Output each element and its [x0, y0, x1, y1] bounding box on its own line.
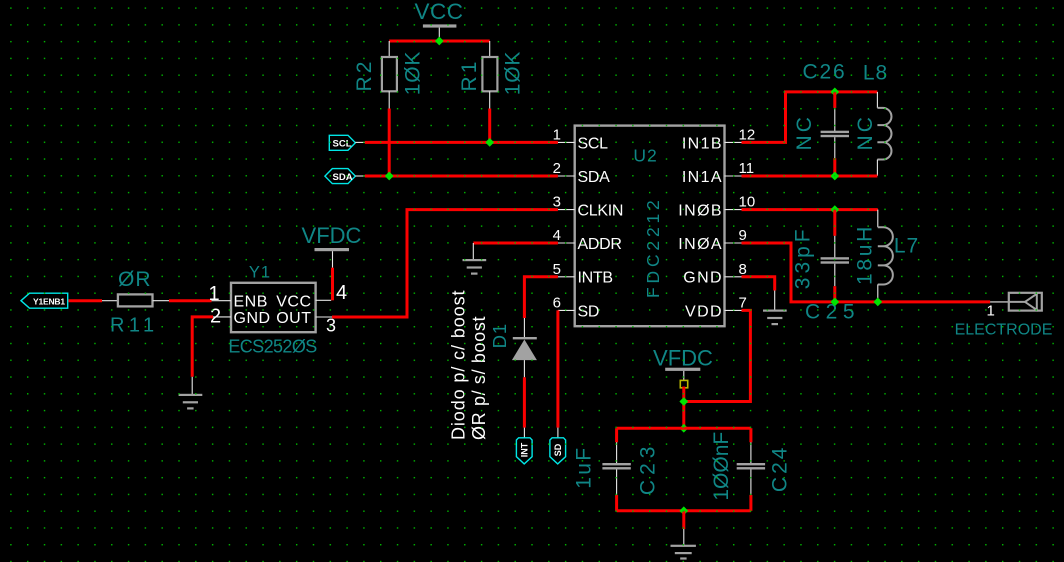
Y1 pin 1 ENB [209, 283, 232, 305]
U2 pin 1 SCL [553, 127, 608, 153]
connector ELECTRODE pin 1 [987, 293, 1042, 320]
junction L7 bottom [873, 298, 882, 307]
junction SCL / R1 [485, 138, 494, 147]
wire D1 to INT flag [523, 377, 526, 427]
wire Y1 OUT to U2 CLKIN [332, 210, 558, 317]
wire U2 IN1B to tank rail [742, 92, 878, 142]
ground bottom [671, 529, 696, 560]
U2 pin 9 IN0A [678, 227, 747, 253]
net flag INT [516, 428, 532, 464]
resistor R11 [102, 294, 169, 306]
wire cap top rail [617, 427, 751, 430]
wire U2 ADDR [473, 242, 558, 245]
wire U2 VDD to VFDC [684, 310, 751, 401]
wire VFDC to Y1 pin 4 [331, 268, 334, 301]
Y1 pin 4 VCC [316, 282, 348, 304]
diode D1 [512, 318, 537, 377]
U2 pin 7 VDD [685, 295, 747, 321]
wire U2 SD to SD flag [556, 310, 559, 427]
U2 pin 2 SDA [553, 160, 610, 186]
capacitor C25 [821, 210, 849, 302]
junction VCC rail [435, 37, 444, 46]
net flag SD [550, 428, 566, 464]
wire R2 to SDA [388, 109, 391, 177]
wire U2 IN1A to tank bottom rail [742, 175, 878, 178]
inductor L8 [877, 92, 891, 176]
U2 pin 4 ADDR [553, 227, 622, 253]
oscillator Y1 ECS2520S [231, 283, 316, 332]
net flag Y1ENB1 [21, 293, 68, 308]
supply VCC [414, 0, 463, 41]
net flag SCL [329, 135, 365, 150]
wire Y1ENB1 to R11 [69, 299, 103, 302]
junction C25 top [830, 205, 839, 214]
junction cap rail top [679, 424, 688, 433]
wire U2 IN0A to electrode [742, 243, 991, 302]
wire SCL [365, 141, 558, 144]
inductor L7 [878, 210, 893, 302]
wire U2 GND pin 8 [742, 277, 775, 291]
supply VFDC (Y1) [302, 223, 362, 268]
net flag SDA [325, 169, 365, 184]
resistor R1 [482, 41, 497, 109]
supply VFDC (bottom) [653, 345, 713, 388]
wire VCC rail [389, 40, 490, 43]
U2 pin 5 INTB [553, 261, 613, 287]
ground Y1 [179, 377, 203, 410]
ground ADDR [463, 243, 487, 275]
junction SDA / R2 [385, 172, 394, 181]
wire Y1 GND pin 2 [192, 317, 213, 377]
U2 pin 10 IN0B [678, 194, 755, 220]
Y1 pin 2 GND [210, 306, 231, 328]
wire cap bottom rail [617, 509, 751, 512]
U2 pin 11 IN1A [682, 160, 754, 186]
junction cap rail bottom [679, 506, 688, 515]
wire rail to ground [682, 511, 685, 529]
junction C26 bottom [830, 172, 839, 181]
ground U2 GND [763, 291, 787, 326]
junction C25 bottom [830, 298, 839, 307]
U2 pin 8 GND [683, 261, 747, 287]
wire U2 IN0B to tank2 rail [742, 208, 878, 211]
wire R11 to Y1 [169, 299, 212, 302]
capacitor C23 [602, 428, 630, 511]
Y1 pin 3 OUT [316, 316, 336, 336]
junction C26 top [830, 88, 839, 97]
capacitor C26 [821, 92, 849, 176]
wire VFDC to cap rail [682, 387, 685, 429]
op IC U2 FDC2212 [575, 126, 725, 327]
resistor R2 [382, 41, 397, 109]
U2 pin 3 CLKIN [553, 194, 623, 220]
U2 pin 6 SD [553, 295, 599, 321]
U2 pin 12 IN1B [682, 127, 755, 153]
wire U2 INTB to D1 [524, 277, 558, 318]
wire R1 to SCL [488, 109, 491, 143]
wire SDA [365, 175, 558, 178]
capacitor C24 [737, 428, 765, 511]
junction VDD / VFDC [679, 397, 688, 406]
